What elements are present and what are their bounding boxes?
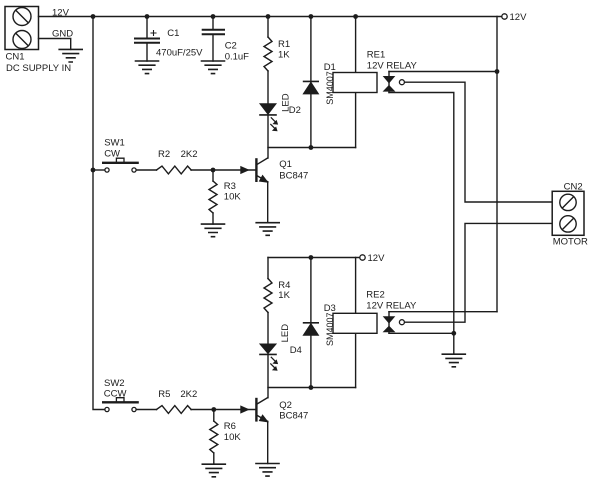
relay RE2 coil leads	[355, 258, 357, 388]
ground under R6	[202, 464, 225, 477]
svg-text:12V: 12V	[52, 7, 70, 18]
svg-text:R6: R6	[224, 421, 236, 432]
ground under C2	[202, 61, 225, 74]
arrow on Q2 base wire	[241, 406, 248, 412]
svg-text:BC847: BC847	[279, 411, 308, 422]
wire R2 to Q1 base	[191, 169, 256, 171]
switch SW1 plunger	[116, 158, 124, 161]
svg-text:SW1: SW1	[104, 138, 125, 149]
capacitor C1 plates	[135, 39, 159, 43]
wire RE1 NC to 12V drop	[389, 71, 497, 73]
relay RE2 pole circle	[399, 320, 404, 325]
svg-text:1K: 1K	[278, 50, 290, 61]
wire RE2 pole to CN2 bottom	[405, 223, 553, 322]
LED D4 cathode bar	[260, 353, 276, 355]
resistor R5	[157, 406, 192, 414]
wire CN1 GND to ground	[39, 39, 71, 50]
relay RE2 coil box	[333, 313, 377, 333]
node junction R1	[266, 14, 271, 19]
switch SW1 bar	[103, 162, 137, 164]
svg-text:D3: D3	[324, 303, 336, 314]
wire 12V rail from CN1 to terminal	[39, 16, 502, 18]
transistor Q2 emitter arrow	[260, 416, 267, 422]
node junction R6 tap	[211, 407, 216, 412]
diode D3 triangle	[304, 324, 318, 335]
svg-text:LED: LED	[280, 324, 291, 343]
resistor R6	[210, 421, 218, 453]
wire Q2 emitter to ground	[267, 421, 269, 463]
svg-text:12V RELAY: 12V RELAY	[366, 300, 417, 311]
wire 12V drop vertical	[496, 17, 498, 312]
svg-text:1K: 1K	[278, 290, 290, 301]
relay RE1 pole circle	[399, 80, 404, 85]
svg-text:CCW: CCW	[104, 389, 127, 400]
relay RE1 coil box	[333, 73, 377, 93]
transistor Q2 collector	[256, 398, 267, 405]
connector CN1 body	[5, 7, 39, 50]
transistor Q1 emitter	[256, 175, 267, 181]
CN2 screw terminal pin 1	[560, 194, 576, 210]
svg-text:CW: CW	[104, 148, 120, 159]
CN1 screw terminal pin 2	[13, 31, 31, 49]
svg-text:SM4007: SM4007	[325, 71, 335, 105]
wire LED D2 to Q1 collector	[267, 115, 269, 158]
svg-text:BC847: BC847	[279, 171, 308, 182]
diode D3 leads	[310, 258, 312, 388]
node junction rail at x=93	[91, 14, 96, 19]
svg-text:GND: GND	[52, 29, 73, 40]
svg-text:12V: 12V	[510, 12, 528, 23]
svg-text:D2: D2	[289, 105, 301, 116]
wire lower 12V rail	[268, 257, 359, 259]
svg-text:SM4007: SM4007	[325, 312, 335, 346]
node junction RE1 coil top rail	[353, 14, 358, 19]
connector CN2 body	[552, 191, 584, 235]
capacitor C1 leads	[146, 17, 148, 62]
wire RE1 NO down to ground net	[389, 93, 454, 355]
resistor R3	[209, 181, 217, 213]
C1 polarity plus sign	[151, 31, 156, 36]
svg-text:470uF/25V: 470uF/25V	[156, 48, 203, 59]
CN1 screw terminal pin 1	[13, 8, 31, 26]
relay RE1 coil leads	[355, 17, 357, 148]
LED D4 triangle	[260, 344, 275, 353]
wire RE2 NC to 12V drop	[389, 311, 497, 313]
diode D1 leads	[310, 17, 312, 148]
switch SW1 terminals	[105, 168, 109, 172]
relay RE2 NO contact arrow	[384, 327, 394, 332]
node junction ground net	[451, 331, 456, 336]
wire RE1 pole to CN2 top	[405, 82, 553, 202]
svg-text:10K: 10K	[224, 432, 242, 443]
svg-text:R5: R5	[158, 389, 170, 400]
svg-text:MOTOR: MOTOR	[553, 237, 588, 248]
relay RE2 NC contact arrow	[384, 317, 394, 323]
svg-text:0.1uF: 0.1uF	[225, 51, 249, 62]
transistor Q1 collector	[256, 158, 267, 165]
node junction R3 tap	[211, 168, 216, 173]
transistor Q2 base bar	[255, 399, 257, 420]
wire RE2 NO to ground net	[389, 332, 454, 334]
resistor R4	[264, 279, 272, 313]
wire Q1 emitter to ground	[267, 182, 269, 223]
ground under Q1	[256, 223, 279, 236]
wire left vertical from 12V rail to SW2	[93, 17, 104, 410]
svg-text:12V RELAY: 12V RELAY	[367, 60, 418, 71]
wire collector node to relay RE2 coil bottom	[268, 387, 356, 389]
svg-text:2K2: 2K2	[180, 389, 197, 400]
svg-text:C1: C1	[167, 28, 179, 39]
svg-text:DC SUPPLY IN: DC SUPPLY IN	[6, 63, 71, 74]
ground under R3	[202, 224, 225, 237]
switch SW2 bar	[103, 401, 137, 403]
ground under Q2	[256, 464, 279, 477]
svg-text:SW2: SW2	[104, 378, 125, 389]
svg-text:CN2: CN2	[564, 182, 583, 193]
node junction SW1 tap	[91, 168, 96, 173]
relay RE1 NC contact arrow	[384, 77, 394, 83]
node junction C2	[211, 14, 216, 19]
svg-text:RE1: RE1	[367, 49, 385, 60]
svg-text:2K2: 2K2	[181, 149, 198, 160]
resistor R1 leads	[267, 17, 269, 104]
transistor Q1 base bar	[255, 159, 257, 180]
diode D1 triangle	[304, 83, 318, 94]
resistor R4 leads	[267, 258, 269, 346]
relay RE1 contact armature line	[388, 72, 390, 93]
LED D2 triangle	[260, 104, 275, 114]
svg-text:R1: R1	[278, 39, 290, 50]
transistor Q2 emitter	[256, 415, 267, 421]
LED D2 light arrows	[271, 118, 278, 131]
svg-text:R2: R2	[158, 149, 170, 160]
node junction C1	[145, 14, 150, 19]
ground at relay contacts	[442, 354, 465, 367]
wire SW2 to R5	[137, 409, 157, 411]
resistor R1	[264, 37, 272, 71]
diode D3 cathode bar	[304, 322, 319, 324]
resistor R6 leads	[213, 410, 215, 465]
wire collector node to relay RE1 coil bottom	[268, 147, 356, 149]
svg-text:Q1: Q1	[279, 159, 292, 170]
LED D4 light arrows	[271, 357, 278, 370]
relay RE1 NO contact arrow	[384, 86, 394, 91]
node junction D1 bottom	[309, 145, 314, 150]
node junction NC1 and 12V drop	[495, 69, 500, 74]
switch SW2 plunger	[116, 398, 124, 401]
terminal 12V top right	[502, 14, 507, 19]
wire SW1 to R2	[137, 169, 157, 171]
relay RE2 contact armature line	[388, 312, 390, 334]
terminal 12V lower	[360, 255, 365, 260]
svg-text:D4: D4	[290, 345, 302, 356]
ground under C1	[136, 61, 159, 74]
resistor R3 leads	[212, 170, 214, 224]
wire R5 to Q2 base	[191, 409, 256, 411]
resistor R2	[157, 166, 192, 174]
capacitor C2 plates	[203, 30, 224, 35]
CN2 screw terminal pin 2	[560, 216, 576, 232]
capacitor C2 leads	[212, 17, 214, 62]
svg-text:CN1: CN1	[6, 52, 25, 63]
wire LED D4 to Q2 collector	[267, 354, 269, 397]
transistor Q1 emitter arrow	[260, 176, 267, 182]
ground under CN1 GND	[59, 49, 82, 62]
svg-text:12V: 12V	[368, 253, 386, 264]
svg-text:R3: R3	[224, 181, 236, 192]
LED D2 cathode bar	[260, 114, 276, 116]
svg-text:10K: 10K	[224, 192, 242, 203]
node junction D3 bottom	[309, 385, 314, 390]
svg-text:RE2: RE2	[366, 289, 384, 300]
wire tap to SW1	[93, 169, 104, 171]
node junction D1 top rail	[309, 14, 314, 19]
svg-text:C2: C2	[225, 41, 237, 52]
arrow on Q1 base wire	[241, 167, 248, 173]
diode D1 cathode bar	[304, 80, 319, 82]
switch SW2 terminals	[105, 407, 109, 411]
svg-text:Q2: Q2	[279, 400, 292, 411]
node junction D3 top rail	[309, 255, 314, 260]
